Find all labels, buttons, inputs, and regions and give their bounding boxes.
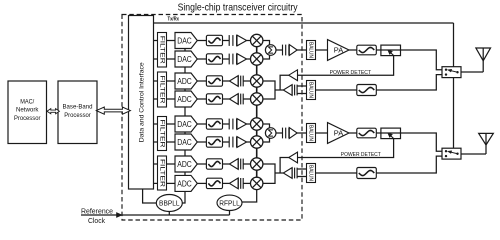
svg-text:FILTER: FILTER — [158, 36, 165, 64]
svg-text:BALUN: BALUN — [308, 165, 314, 181]
svg-text:PA: PA — [334, 46, 343, 55]
svg-text:Network: Network — [16, 107, 39, 114]
svg-text:DAC: DAC — [177, 138, 192, 147]
svg-text:Processor: Processor — [14, 115, 41, 122]
svg-text:BALUN: BALUN — [308, 82, 314, 98]
svg-text:RFPLL: RFPLL — [219, 200, 240, 207]
svg-text:DAC: DAC — [177, 36, 192, 45]
svg-text:FILTER: FILTER — [158, 76, 165, 104]
svg-text:Processor: Processor — [64, 112, 91, 119]
svg-text:MAC/: MAC/ — [20, 99, 34, 106]
svg-text:POWER DETECT: POWER DETECT — [341, 152, 381, 158]
svg-text:Data and Control Interface: Data and Control Interface — [139, 62, 146, 143]
svg-text:PA: PA — [334, 129, 343, 138]
svg-text:BBPLL: BBPLL — [159, 201, 180, 208]
svg-text:Base-Band: Base-Band — [63, 103, 93, 110]
svg-text:POWER DETECT: POWER DETECT — [330, 70, 372, 76]
svg-text:Tx/Rx: Tx/Rx — [168, 17, 180, 23]
svg-text:DAC: DAC — [177, 55, 192, 64]
svg-text:ADC: ADC — [177, 95, 192, 104]
svg-text:BALUN: BALUN — [308, 125, 314, 141]
svg-text:ADC: ADC — [177, 77, 192, 86]
svg-text:DAC: DAC — [177, 120, 192, 129]
svg-text:FILTER: FILTER — [158, 159, 165, 187]
svg-text:BALUN: BALUN — [308, 42, 314, 58]
svg-text:Clock: Clock — [88, 216, 105, 225]
svg-text:Single-chip transceiver circui: Single-chip transceiver circuitry — [178, 1, 299, 13]
svg-text:ADC: ADC — [177, 179, 192, 188]
svg-text:FILTER: FILTER — [158, 120, 165, 148]
svg-text:Reference: Reference — [81, 206, 113, 215]
svg-text:ADC: ADC — [177, 160, 192, 169]
